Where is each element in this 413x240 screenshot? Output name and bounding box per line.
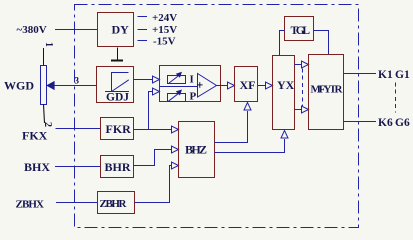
wire BHR to BHZ: [134, 150, 173, 166]
wire YX to MFYTR ch1: [295, 64, 303, 66]
wire BHZ to YX bottom: [215, 139, 285, 153]
wire FKX to FKR: [56, 128, 101, 130]
middle summing line: [160, 86, 198, 88]
P potentiometer symbol: [168, 94, 186, 102]
svg-text:BHX: BHX: [24, 160, 50, 174]
wire FKR to BHZ: [134, 129, 173, 131]
arrow up into YX: [281, 131, 288, 139]
plus sign: [197, 82, 203, 88]
arrow into BHZ in2: [172, 146, 179, 153]
potentiometer WGD body: [41, 66, 47, 105]
wire YX to MFYTR ch6: [295, 109, 303, 111]
wire wiper to GDJ: [54, 85, 96, 87]
svg-text:DY: DY: [112, 23, 130, 37]
svg-text:-15V: -15V: [153, 36, 176, 48]
wire regulator to XF: [217, 85, 229, 87]
limiter XF: [235, 67, 258, 102]
ramp generator GDJ: [97, 67, 134, 103]
PI regulator box U1: [160, 66, 221, 102]
arrow into regulator input 2: [153, 88, 160, 95]
wire +24V stub: [138, 16, 148, 18]
svg-text:XF: XF: [240, 78, 256, 92]
svg-text:FKR: FKR: [106, 122, 132, 136]
arrow up into XF: [244, 103, 251, 111]
dashed ellipsis between K1 and K6: [395, 83, 397, 113]
svg-text:+24V: +24V: [152, 12, 177, 24]
protection logic BHZ: [179, 122, 215, 178]
svg-text:~380V: ~380V: [17, 24, 47, 36]
svg-text:ZBHR: ZBHR: [100, 198, 128, 210]
wire TGL to MFYTR top: [314, 31, 329, 55]
svg-text:FKX: FKX: [22, 129, 48, 143]
arrow into YX: [266, 82, 273, 89]
svg-text:I: I: [190, 74, 194, 86]
svg-text:BHR: BHR: [105, 160, 131, 174]
svg-text:BHZ: BHZ: [185, 143, 207, 157]
power supply DY: [98, 13, 134, 47]
wire MFYTR to K6 G6: [344, 121, 377, 123]
standby protection unit ZBHR: [98, 192, 135, 214]
svg-text:3: 3: [75, 76, 80, 86]
op-amp triangle: [198, 74, 217, 98]
pin 2 lead: [44, 105, 45, 124]
wire +15V stub: [138, 29, 148, 31]
wire BHZ to XF bottom: [215, 111, 248, 143]
svg-text:TGL: TGL: [291, 25, 311, 37]
arrow into BHZ in1: [172, 126, 179, 133]
feedback unit FKR: [101, 118, 134, 140]
wire ~380V to DY: [55, 29, 98, 31]
svg-text:MFYTR: MFYTR: [311, 84, 344, 96]
arrow into XF: [228, 82, 235, 89]
arrow into BHZ in3: [172, 162, 179, 169]
wiper arrow: [47, 82, 54, 90]
svg-text:YX: YX: [277, 78, 295, 92]
wire MFYTR to K1 G1: [344, 73, 377, 75]
wire ZBHR to BHZ: [135, 166, 173, 203]
wire GDJ to regulator: [134, 79, 154, 81]
svg-text:1: 1: [43, 42, 54, 47]
svg-text:GDJ: GDJ: [106, 92, 129, 104]
wire BHX to BHR: [55, 166, 101, 168]
phase shifter YX: [273, 56, 295, 130]
I potentiometer symbol: [168, 76, 186, 84]
svg-text:2: 2: [42, 122, 53, 127]
svg-text:ZBHX: ZBHX: [16, 199, 45, 211]
svg-text:WGD: WGD: [4, 79, 34, 93]
protection unit BHR: [101, 156, 134, 178]
pulse amplifier MFYTR: [309, 55, 344, 130]
svg-text:+15V: +15V: [152, 24, 177, 36]
dashed enclosure border: [75, 5, 359, 228]
wire feedback junction up to regulator input 2: [149, 92, 154, 130]
pin 1 lead: [43, 48, 45, 66]
wire -15V stub: [138, 40, 148, 42]
wire XF to YX: [258, 85, 267, 87]
dashed more-channels line: [302, 69, 304, 107]
wire ZBHX to ZBHR: [56, 202, 98, 204]
trigger TGL: [285, 17, 314, 41]
ground below DY: [117, 48, 119, 61]
arrow into regulator input 1: [153, 76, 160, 83]
wire TGL to YX top: [280, 31, 285, 56]
svg-text:P: P: [190, 91, 197, 103]
